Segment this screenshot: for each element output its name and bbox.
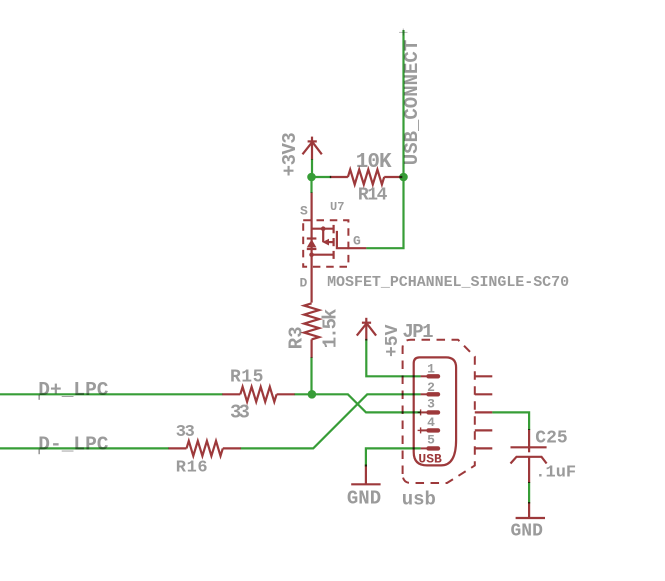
svg-text:C25: C25 [535, 429, 567, 449]
JP1 inner receptacle outline [414, 357, 456, 465]
junction dot at R14/USB_CONNECT [399, 173, 408, 182]
channel bar middle [333, 238, 335, 246]
svg-text:R15: R15 [230, 368, 264, 388]
pin S / pin D vertical line [311, 193, 313, 303]
JP1 pads [429, 376, 439, 448]
resistor R16 [168, 441, 241, 456]
body diode cathode bar [307, 237, 317, 239]
U7 dashed outline [303, 220, 348, 266]
channel bar bottom [333, 251, 335, 259]
svg-text:+5V: +5V [383, 324, 403, 357]
svg-text:2: 2 [427, 380, 435, 395]
svg-text:JP1: JP1 [402, 321, 433, 343]
resistor R15 [222, 387, 295, 402]
JP1 pin leads [421, 376, 428, 448]
supply +5V symbol [357, 318, 376, 341]
svg-text:MOSFET_PCHANNEL_SINGLE-SC70: MOSFET_PCHANNEL_SINGLE-SC70 [327, 274, 569, 291]
net label D+_LPC origin tick [38, 395, 40, 400]
node USB_CONNECT end cross [399, 29, 408, 36]
gate bar [337, 231, 366, 248]
svg-text:USB_CONNECT: USB_CONNECT [401, 40, 423, 165]
connector JP1 dashed outline [403, 340, 475, 483]
pin 3 connection cross [418, 409, 424, 415]
capacitor C25 [511, 429, 547, 483]
svg-text:usb: usb [402, 488, 436, 510]
body stub with arrow [327, 241, 334, 243]
svg-text:GND: GND [511, 522, 544, 542]
body arrow head [322, 239, 329, 246]
svg-text:USB: USB [418, 451, 442, 466]
wire C25 to GND [528, 482, 530, 504]
svg-text:R3: R3 [286, 326, 308, 349]
wire +5V to pin1 [366, 339, 420, 376]
wire +3V3 to junction [311, 159, 313, 178]
resistor R3 [304, 303, 319, 358]
wire junction down to S pin [310, 177, 312, 193]
svg-text:R16: R16 [176, 458, 208, 477]
svg-text:S: S [300, 203, 308, 218]
svg-text:3: 3 [427, 397, 435, 412]
source stub [312, 228, 334, 230]
svg-text:R14: R14 [358, 186, 388, 206]
body tie vertical [322, 229, 324, 242]
resistor R14 [330, 170, 403, 185]
svg-text:+3V3: +3V3 [279, 133, 301, 177]
body diode anode bar [307, 248, 317, 250]
svg-text:1.5k: 1.5k [320, 309, 342, 348]
svg-text:1: 1 [427, 361, 435, 376]
wire USB_CONNECT vertical [402, 30, 404, 177]
transistor U7 p-channel MOSFET [307, 193, 367, 303]
ground GND right [516, 502, 545, 518]
svg-text:G: G [353, 234, 361, 249]
wire pin5 to GND [366, 448, 421, 466]
wire R15 to junction [295, 393, 313, 395]
svg-text:D: D [300, 276, 308, 291]
JP1 shield teeth [475, 376, 493, 448]
svg-text:33: 33 [230, 401, 250, 423]
wire R3 to junction [310, 357, 312, 394]
wire D+_LPC [0, 393, 222, 395]
svg-text:5: 5 [427, 433, 435, 448]
svg-text:33: 33 [176, 423, 195, 442]
wire USB_CONNECT down to gate [366, 177, 403, 248]
wire D-_LPC [0, 447, 169, 449]
svg-text:10K: 10K [356, 151, 392, 174]
pin 4 connection cross [418, 427, 424, 433]
junction dot at +3V3/R14 [307, 173, 316, 182]
svg-text:.1uF: .1uF [535, 464, 576, 483]
wire R16 to pin2 (crossover lower-left) [241, 394, 421, 448]
channel bar top [333, 225, 335, 233]
ground GND left [351, 465, 380, 485]
svg-text:D+_LPC: D+_LPC [38, 379, 109, 401]
junction dot R15/R3 [308, 390, 317, 399]
drain stub [312, 254, 334, 256]
svg-text:D-_LPC: D-_LPC [38, 434, 109, 456]
body diode triangle [307, 239, 317, 247]
svg-text:U7: U7 [330, 200, 344, 214]
svg-text:4: 4 [427, 415, 435, 430]
wire junction to R14 left [312, 176, 332, 178]
supply +3V3 symbol [303, 137, 322, 160]
wire shield to C25 [492, 412, 529, 430]
mosfet internal junction dots [321, 226, 326, 231]
wire junction to pin3 (crossover upper-left) [312, 394, 421, 412]
svg-text:GND: GND [347, 488, 381, 510]
net label D-_LPC origin tick [38, 449, 40, 454]
